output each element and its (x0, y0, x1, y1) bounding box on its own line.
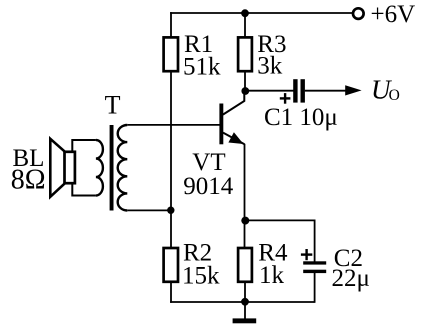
junction dot secondary/left rail (167, 207, 174, 214)
wire C2 lower lead (314, 273, 316, 303)
svg-text:51k: 51k (183, 54, 221, 81)
wire left vertical upper (170, 12, 172, 38)
wire left vertical middle (170, 71, 172, 249)
junction dot collector (241, 87, 249, 95)
resistor R4 (238, 248, 252, 282)
speaker BL cone (50, 139, 65, 197)
wire ground stub (244, 302, 246, 319)
wire primary top lead (72, 140, 96, 152)
wire bottom rail (170, 301, 315, 303)
svg-text:22μ: 22μ (332, 265, 370, 292)
wire collector to C1 (245, 90, 294, 92)
wire left vertical lower (170, 282, 172, 303)
wire R3 bottom lead (244, 71, 246, 91)
transformer T core (110, 125, 114, 211)
resistor R2 (164, 248, 178, 282)
wire top rail (170, 12, 352, 14)
svg-text:1k: 1k (259, 262, 285, 289)
svg-text:T: T (105, 91, 121, 120)
wire R4 bottom lead (244, 282, 246, 303)
wire secondary bottom to node (127, 209, 172, 211)
ground (233, 318, 257, 323)
svg-text:15k: 15k (182, 262, 220, 289)
junction dot bottom ground (241, 298, 249, 306)
svg-text:3k: 3k (257, 52, 283, 79)
wire R3 top lead (244, 13, 246, 38)
transistor emitter lead (223, 133, 245, 145)
speaker BL driver (65, 152, 75, 183)
transformer primary winding (96, 140, 103, 196)
capacitor C2 (303, 261, 326, 264)
transformer secondary winding (118, 125, 128, 211)
arrowhead output (345, 85, 361, 95)
wire base lead (127, 124, 219, 126)
polarity + of C2 (301, 249, 312, 260)
transistor collector lead (223, 91, 244, 115)
wire emitter vertical (244, 144, 246, 249)
wire primary bottom lead (72, 183, 96, 196)
transistor VT base bar (219, 104, 223, 145)
terminal +6V (353, 8, 364, 19)
svg-text:8Ω: 8Ω (11, 164, 46, 195)
resistor R1 (164, 37, 178, 71)
capacitor C1 (293, 79, 297, 102)
polarity + of C1 (280, 93, 291, 104)
wire C2 branch horizontal (245, 219, 315, 221)
junction dot emitter/C2 branch (241, 217, 249, 225)
transistor emitter arrowhead (228, 132, 243, 144)
svg-text:VT: VT (192, 149, 225, 176)
svg-text:O: O (389, 87, 400, 104)
wire C2 upper lead (314, 220, 316, 262)
svg-text:9014: 9014 (183, 173, 234, 200)
wire C1 to arrow (305, 90, 346, 92)
resistor R3 (238, 37, 252, 71)
svg-text:C1 10μ: C1 10μ (264, 104, 338, 131)
junction dot top R3 (241, 9, 249, 17)
svg-text:+6V: +6V (371, 1, 416, 28)
